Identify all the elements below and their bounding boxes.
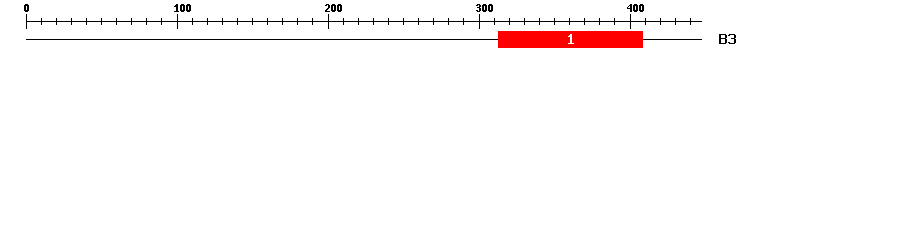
minor tick 360	[569, 18, 570, 25]
minor tick 370	[584, 18, 585, 25]
minor tick 330	[524, 18, 525, 25]
minor tick 150	[252, 18, 253, 25]
minor tick 190	[312, 18, 313, 25]
minor tick 90	[161, 18, 162, 25]
minor tick 260	[418, 18, 419, 25]
minor tick 70	[131, 18, 132, 25]
minor tick 380	[599, 18, 600, 25]
major tick 400	[630, 14, 631, 29]
scale label 100	[0, 0, 900, 1]
minor tick 270	[433, 18, 434, 25]
minor tick 430	[675, 18, 676, 25]
minor tick 130	[222, 18, 223, 25]
major tick 100	[177, 14, 178, 29]
feature bar label 1	[0, 0, 900, 1]
minor tick 350	[554, 18, 555, 25]
major tick 200	[328, 14, 329, 29]
minor tick 240	[388, 18, 389, 25]
minor tick 50	[101, 18, 102, 25]
minor tick 230	[373, 18, 374, 25]
minor tick 390	[614, 18, 615, 25]
minor tick 180	[297, 18, 298, 25]
scale label 400	[0, 0, 900, 1]
minor tick 310	[494, 18, 495, 25]
sequence line	[26, 39, 702, 40]
minor tick 290	[463, 18, 464, 25]
minor tick 10	[41, 18, 42, 25]
minor tick 250	[403, 18, 404, 25]
scale label 0	[0, 0, 900, 1]
minor tick 30	[71, 18, 72, 25]
minor tick 280	[448, 18, 449, 25]
scale label 300	[0, 0, 900, 1]
minor tick 80	[146, 18, 147, 25]
minor tick 210	[343, 18, 344, 25]
minor tick 160	[267, 18, 268, 25]
minor tick 40	[86, 18, 87, 25]
ruler baseline	[26, 21, 702, 22]
minor tick 220	[358, 18, 359, 25]
minor tick 140	[237, 18, 238, 25]
track label B3	[0, 0, 900, 1]
major tick 0	[26, 14, 27, 29]
minor tick 340	[539, 18, 540, 25]
minor tick 420	[660, 18, 661, 25]
minor tick 170	[282, 18, 283, 25]
feature bar 1	[498, 31, 643, 48]
minor tick 110	[192, 18, 193, 25]
minor tick 440	[690, 18, 691, 25]
minor tick 20	[56, 18, 57, 25]
scale label 200	[0, 0, 900, 1]
minor tick 410	[645, 18, 646, 25]
major tick 300	[479, 14, 480, 29]
minor tick 60	[116, 18, 117, 25]
minor tick 120	[207, 18, 208, 25]
minor tick 320	[509, 18, 510, 25]
